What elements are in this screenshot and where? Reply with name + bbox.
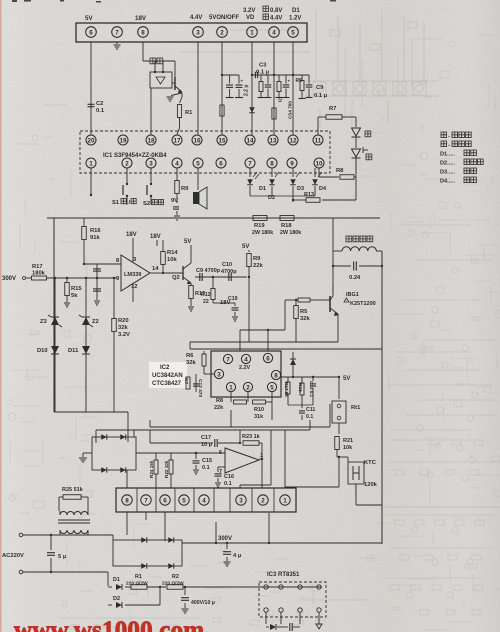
capacitor C3 (254, 72, 256, 79)
resistor stub c (278, 75, 280, 81)
svg-text:400V/10 μ: 400V/10 μ (191, 600, 215, 606)
resistor R5 32k (295, 299, 297, 301)
svg-text:6: 6 (266, 355, 270, 362)
resistor R17b 5k (287, 377, 289, 380)
svg-text:18V: 18V (150, 234, 161, 240)
svg-text:5V: 5V (85, 15, 93, 22)
svg-text:15: 15 (218, 137, 226, 144)
wire pin1 down (251, 42, 253, 135)
zener Z2 (85, 278, 87, 412)
svg-text:R1: R1 (135, 574, 142, 580)
IC3 sub diode (270, 624, 276, 630)
wire pin4 down (273, 42, 275, 135)
svg-text:32k: 32k (300, 316, 310, 322)
cap 4u (226, 542, 228, 544)
svg-text:12: 12 (131, 284, 137, 290)
IC3 dashed box (259, 582, 326, 617)
svg-text:10: 10 (315, 160, 323, 167)
svg-text:1: 1 (283, 497, 287, 504)
pin 2 top connector (217, 27, 228, 38)
IC1 pin 12 (288, 135, 298, 145)
IC3 bottom pins (264, 608, 268, 612)
svg-text:C17: C17 (201, 435, 211, 441)
svg-text:10k: 10k (343, 445, 353, 451)
wire pin3 riser (270, 430, 272, 485)
svg-text:D11: D11 (68, 348, 79, 354)
svg-text:3: 3 (217, 371, 221, 378)
svg-text:R20: R20 (118, 318, 129, 324)
svg-text:LM339: LM339 (124, 272, 141, 278)
bus y412 (54, 411, 128, 413)
IC1 pin 3 (146, 158, 156, 168)
wire lm339 pin8 rail (84, 263, 121, 265)
svg-text:9: 9 (290, 160, 294, 167)
wires below connector (126, 512, 128, 535)
svg-text:CTC38427: CTC38427 (152, 381, 182, 387)
svg-text:R22 10k: R22 10k (164, 460, 169, 478)
divider to 18V C19 (212, 276, 214, 278)
connector divider (229, 488, 231, 512)
pin 3 top connector (193, 27, 204, 38)
wire pin5 down (292, 42, 294, 135)
red left page edge (0, 0, 2, 632)
svg-text:8: 8 (141, 29, 145, 36)
svg-text:AC220V: AC220V (2, 553, 24, 559)
IGBT IBG1 K25T1200 (332, 266, 334, 292)
svg-text:0.1: 0.1 (96, 108, 105, 114)
wire pin8 down to fan (142, 42, 144, 61)
resistors R19 R18 2W180k (253, 216, 267, 221)
LED green (355, 137, 357, 148)
ghost verticals upper right (345, 40, 412, 118)
svg-text:2W 180k: 2W 180k (252, 230, 273, 236)
svg-text:5V: 5V (184, 239, 191, 245)
svg-text:Z3: Z3 (40, 319, 48, 325)
bottom connector pin 4 (199, 495, 209, 505)
capacitor C2 0.1 (88, 103, 95, 105)
junction pin2 rail (221, 74, 223, 76)
svg-text:C2: C2 (96, 101, 103, 107)
svg-text:1: 1 (229, 384, 233, 391)
svg-text:D2.....: D2..... (440, 161, 455, 167)
svg-text:14: 14 (246, 137, 254, 144)
bottom connector pin 6 (160, 495, 170, 505)
svg-text:2.2 μ: 2.2 μ (244, 85, 250, 96)
wire bus y430 (96, 429, 310, 431)
IC3 top pins (240, 586, 322, 588)
vertical drop to IC2 (284, 300, 286, 330)
svg-text:12: 12 (289, 137, 297, 144)
wire pin2 down (221, 42, 223, 135)
svg-text:+: + (241, 79, 244, 84)
svg-text:0.24: 0.24 (349, 275, 361, 281)
svg-text:4: 4 (202, 497, 206, 504)
svg-text:IBG1: IBG1 (346, 292, 359, 298)
svg-text:18V: 18V (135, 15, 147, 22)
svg-text:R9: R9 (253, 256, 261, 262)
svg-text:R2: R2 (172, 574, 179, 580)
svg-text:5: 5 (182, 497, 186, 504)
resistor R16 91k (83, 218, 85, 226)
IC1 pin 9 (287, 158, 297, 168)
IC2 pin 8 (271, 370, 280, 379)
wire pin6 to IC1 pin20 (90, 42, 92, 135)
IC1 pin 19 (118, 135, 128, 145)
svg-text:1: 1 (89, 160, 93, 167)
legend guan-green (441, 132, 447, 138)
svg-text:6: 6 (219, 160, 223, 167)
svg-text:8: 8 (274, 372, 278, 379)
cap C16 0.1 (217, 467, 219, 472)
svg-text:D1: D1 (292, 8, 300, 14)
svg-text:5: 5 (291, 29, 295, 36)
svg-text:R9: R9 (181, 186, 189, 192)
BR1 diode c (141, 563, 147, 569)
verticals to lower section (95, 430, 97, 443)
svg-text:20: 20 (87, 137, 95, 144)
connector divider (136, 488, 138, 512)
connector divider (193, 488, 195, 512)
pin 4 top connector (269, 27, 280, 38)
svg-text:R14: R14 (167, 250, 178, 256)
svg-text:3.2V: 3.2V (243, 8, 255, 14)
svg-text:R24 15k: R24 15k (149, 460, 154, 478)
svg-text:2.2V: 2.2V (239, 365, 250, 371)
svg-text:+: + (288, 79, 291, 84)
transistor Q2 (163, 272, 183, 274)
svg-text:8: 8 (125, 497, 129, 504)
svg-text:D2: D2 (113, 596, 120, 602)
bridge2 diode b (120, 434, 126, 440)
IC2 pin 6 (263, 353, 272, 362)
connector divider (251, 488, 253, 512)
bridge2 diode c (101, 467, 107, 473)
IC1 pin 8 (267, 158, 277, 168)
bottom edge wire (378, 543, 382, 545)
svg-text:KTC: KTC (364, 460, 377, 466)
svg-text:C13 0.1: C13 0.1 (309, 381, 314, 398)
bus lines mid (190, 341, 338, 343)
svg-text:D3: D3 (297, 186, 304, 192)
svg-text:C19: C19 (228, 296, 238, 302)
IC2 pin 3 (214, 369, 223, 378)
connector divider (273, 488, 275, 512)
capacitor stub d polarized (285, 75, 287, 84)
resistor R1 (181, 93, 183, 97)
wire bridge2 to pin8 (126, 470, 128, 488)
caps at lm339 input (96, 277, 98, 279)
resistor R15 5k (66, 277, 68, 279)
svg-text:Z2: Z2 (92, 319, 99, 325)
wire bus y427 (150, 426, 330, 428)
IC1 pin 16 (192, 135, 202, 145)
wire pin3 down (197, 42, 199, 135)
svg-text:D1: D1 (113, 577, 120, 583)
lm339 out pin14 (150, 272, 163, 274)
svg-text:CS4 700: CS4 700 (288, 101, 293, 119)
rail y75 (252, 74, 309, 76)
IC3 sub zener (316, 624, 322, 629)
rail to coil (294, 217, 333, 219)
svg-text:C10: C10 (222, 262, 232, 268)
op-amp LM339 (121, 255, 150, 291)
bus under IC2 (288, 404, 313, 406)
5V rail right (275, 377, 277, 380)
svg-text:120k: 120k (364, 482, 378, 488)
svg-text:UC3842AN: UC3842AN (152, 373, 183, 379)
svg-text:R21: R21 (343, 438, 353, 444)
bridge2 right wire (136, 452, 186, 454)
fan emitter ground (171, 93, 182, 96)
resistor R21 10k (338, 423, 340, 434)
svg-text:R12: R12 (201, 292, 211, 298)
svg-text:R8: R8 (216, 398, 223, 404)
svg-text:IC1 S3F9454×ZZ-0KB4: IC1 S3F9454×ZZ-0KB4 (103, 153, 167, 159)
svg-text:C11: C11 (306, 407, 315, 413)
LED D1 (249, 168, 251, 177)
svg-text:5 μ: 5 μ (58, 554, 67, 560)
connector divider (174, 488, 176, 512)
svg-text:4.4V: 4.4V (270, 16, 282, 22)
svg-text:3: 3 (196, 29, 200, 36)
svg-text:IC3 RT8351: IC3 RT8351 (267, 572, 300, 578)
cap 5u (50, 534, 52, 536)
svg-text:18: 18 (147, 137, 155, 144)
svg-text:R6: R6 (186, 353, 194, 359)
cap C15 0.1 (195, 452, 197, 454)
wire z-branch (54, 278, 56, 412)
svg-text:22k: 22k (253, 263, 263, 269)
svg-text:4.4V: 4.4V (190, 15, 202, 21)
bridge2 diode a (101, 434, 107, 440)
thermistor Rt1 (338, 377, 340, 399)
diode IC2 right (292, 342, 294, 377)
IC1 pin 13 (268, 135, 278, 145)
svg-text:S1: S1 (112, 200, 120, 206)
svg-text:7: 7 (248, 160, 252, 167)
capacitor 2.2u a (229, 75, 231, 84)
svg-text:0.1 μ: 0.1 μ (314, 93, 328, 99)
IC2 pin 7 (223, 354, 232, 363)
wire pin2 down to rail (268, 513, 270, 543)
pin 7 top connector (112, 27, 123, 38)
svg-text:R15: R15 (71, 286, 82, 292)
main board outline left (53, 218, 55, 412)
svg-text:C3: C3 (259, 63, 267, 69)
bridge2 diode d (120, 467, 126, 473)
svg-text:D1: D1 (259, 186, 266, 192)
svg-text:R6: R6 (296, 78, 303, 84)
thermistor KTC (337, 456, 356, 458)
AC terminals (19, 533, 23, 537)
svg-text:220 Ω/2W: 220 Ω/2W (126, 581, 148, 587)
svg-text:D4.....: D4..... (440, 179, 455, 185)
IC1 pin 6 (216, 158, 226, 168)
speaker BZ (197, 168, 199, 190)
svg-text:D4: D4 (319, 186, 327, 192)
svg-text:4: 4 (272, 29, 276, 36)
IC2 pin 2 (243, 382, 252, 391)
IC2 box UC3842 (211, 351, 281, 397)
pin 1 top connector (247, 27, 258, 38)
IC1 pin 4 (172, 158, 182, 168)
connector divider (155, 488, 157, 512)
svg-text:R17: R17 (32, 264, 43, 270)
capacitor C9 0.1u (308, 75, 310, 84)
resistor R10 31k (247, 392, 249, 402)
bottom connector pin 3 (236, 495, 246, 505)
resistor R13 (355, 177, 357, 200)
IC1 pin 7 (245, 158, 255, 168)
caps C9 C10 4700p (191, 276, 247, 278)
svg-text:R19: R19 (254, 223, 265, 229)
wire IC1 pin1 down (90, 168, 92, 195)
svg-text:D10: D10 (37, 348, 48, 354)
resistor inline pin2 (220, 105, 224, 116)
ghost line right of circuit (384, 506, 500, 508)
LED D4 (314, 168, 316, 177)
BR1 diode a (141, 537, 147, 543)
svg-text:3: 3 (239, 497, 243, 504)
svg-text:D1.....: D1..... (440, 152, 455, 158)
svg-text:R18: R18 (281, 223, 292, 229)
resistor R24 15k (154, 460, 158, 474)
svg-text:6: 6 (163, 497, 167, 504)
svg-text:5VON/OFF: 5VON/OFF (209, 15, 239, 21)
svg-text:17: 17 (173, 137, 181, 144)
legend kai-red (441, 141, 447, 147)
svg-text:-: - (448, 134, 450, 140)
svg-text:VD: VD (246, 15, 255, 21)
svg-text:300V: 300V (218, 536, 232, 542)
heating coil inductor (342, 247, 376, 251)
svg-text:4: 4 (244, 356, 248, 363)
label guan 0.8V (263, 6, 269, 12)
bottom connector pin 7 (141, 495, 151, 505)
svg-text:5V: 5V (343, 376, 350, 382)
bottom connector pin 2 (258, 495, 268, 505)
pin 5 top connector (288, 27, 299, 38)
IC1 pin 1 (86, 158, 96, 168)
svg-text:0.1: 0.1 (306, 414, 313, 420)
diode D9 (249, 107, 255, 113)
svg-text:16: 16 (193, 137, 201, 144)
svg-text:22: 22 (203, 299, 209, 305)
pin 6 top connector (86, 27, 97, 38)
op-amp IC4 (225, 448, 259, 473)
svg-text:8: 8 (270, 160, 274, 167)
resistor R9 pin4 (176, 168, 178, 180)
svg-text:11: 11 (315, 137, 322, 144)
IC2 label patch (149, 362, 187, 388)
svg-text:R1: R1 (185, 110, 193, 116)
IC1 box S3F9454 (80, 131, 330, 173)
svg-text:32k: 32k (186, 360, 196, 366)
svg-text:7: 7 (115, 29, 119, 36)
wire pin1 riser (284, 430, 286, 487)
svg-text:R23 1k: R23 1k (242, 434, 261, 440)
cap C13 0.1 (312, 377, 314, 381)
wire pin7 to ground (116, 42, 118, 44)
ground pin7 (114, 44, 121, 46)
svg-text:C16: C16 (224, 474, 234, 480)
transformer T1 (58, 497, 60, 511)
svg-text:7: 7 (144, 497, 148, 504)
svg-text:R10: R10 (254, 407, 264, 413)
svg-text:3: 3 (149, 160, 153, 167)
op-amp top rail (239, 442, 241, 444)
svg-text:19: 19 (119, 137, 127, 144)
svg-text:K25T1200: K25T1200 (350, 301, 376, 307)
svg-text:2W 180k: 2W 180k (280, 230, 301, 236)
cap 400V10u (184, 586, 186, 588)
fan motor box (150, 72, 172, 88)
svg-text:2: 2 (125, 160, 129, 167)
right edge vertical (381, 251, 383, 544)
svg-text:5V: 5V (242, 244, 249, 250)
svg-text:Rt1: Rt1 (351, 405, 361, 411)
svg-text:R8: R8 (336, 168, 344, 174)
fan drive transistor Q1 (174, 61, 176, 77)
svg-text:4: 4 (175, 160, 179, 167)
svg-text:2: 2 (220, 29, 224, 36)
resistor inline pin4 (272, 108, 276, 119)
svg-text:www.ws1000.com: www.ws1000.com (14, 617, 204, 632)
svg-text:R13: R13 (304, 192, 314, 198)
AC wires (23, 534, 113, 536)
transformer leads (59, 530, 61, 535)
BR1 diode b (168, 537, 174, 543)
capacitor stub b (267, 75, 269, 84)
resistor stub a (260, 75, 262, 81)
IC2 pin 1 (226, 382, 235, 391)
wire R1 to IC1 pin17 (179, 118, 181, 129)
bottom connector pin 1 (280, 495, 290, 505)
svg-text:4 μ: 4 μ (233, 553, 242, 559)
svg-text:R25 51k: R25 51k (62, 487, 84, 493)
svg-text:31k: 31k (254, 414, 264, 420)
svg-text:32k: 32k (118, 325, 128, 331)
svg-text:0.8V: 0.8V (270, 8, 282, 14)
svg-text:N7: N7 (183, 378, 189, 384)
svg-text:220 Ω/2W: 220 Ω/2W (162, 581, 184, 587)
svg-text:18V: 18V (126, 232, 137, 238)
bridge rectifier 2 (92, 437, 136, 470)
IC2 pin 5 (267, 382, 276, 391)
svg-text:I2: I2 (278, 98, 283, 102)
svg-text:5k: 5k (71, 293, 78, 299)
wire 300V stub up (215, 522, 217, 543)
svg-text:0.1: 0.1 (202, 465, 210, 471)
svg-text:C9: C9 (316, 85, 324, 91)
bottom connector box (116, 488, 296, 512)
svg-text:S2: S2 (143, 201, 150, 207)
IC1 pin 20 (86, 135, 96, 145)
resistor R20 32k (113, 277, 115, 279)
300V rail (182, 542, 382, 544)
resonant cap 0.24 (332, 251, 334, 266)
svg-text:IC2: IC2 (160, 365, 170, 371)
LED red (355, 117, 357, 127)
LED rail joins (250, 195, 315, 197)
svg-text:-: - (448, 143, 450, 149)
svg-text:300V: 300V (2, 276, 16, 282)
main board outline top (47, 217, 380, 219)
svg-text:22k: 22k (214, 405, 224, 411)
mains bridge BR1 (113, 540, 182, 566)
svg-text:13: 13 (269, 137, 277, 144)
svg-text:R7: R7 (329, 106, 336, 112)
